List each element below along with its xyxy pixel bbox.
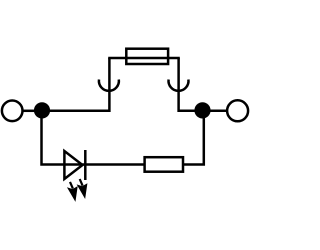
wire <box>203 110 227 113</box>
wire <box>179 110 196 113</box>
terminal X2 (right open circle) <box>227 100 248 121</box>
terminal X1 (left open circle) <box>2 101 23 122</box>
disconnect contact (left arc) <box>99 80 119 91</box>
LED D1 cathode bar <box>84 150 87 180</box>
LED D1 emission arrow 2 <box>78 179 87 198</box>
fuse F1 <box>126 49 168 64</box>
wire <box>42 111 65 165</box>
wire <box>85 163 144 166</box>
LED D1 (diode triangle) <box>64 151 82 179</box>
node A (left junction dot) <box>34 102 50 118</box>
wire <box>177 58 180 112</box>
wire (through fuse) <box>126 57 168 60</box>
node B (right junction dot) <box>194 102 210 118</box>
wire <box>23 110 35 113</box>
LED D1 emission arrow 1 <box>68 182 77 201</box>
resistor R1 <box>145 157 183 172</box>
disconnect contact (right arc) <box>169 80 189 91</box>
wire <box>108 58 111 112</box>
wire <box>42 110 110 113</box>
wire (through LED) <box>64 163 85 166</box>
wire <box>108 57 180 60</box>
wire <box>183 111 204 165</box>
